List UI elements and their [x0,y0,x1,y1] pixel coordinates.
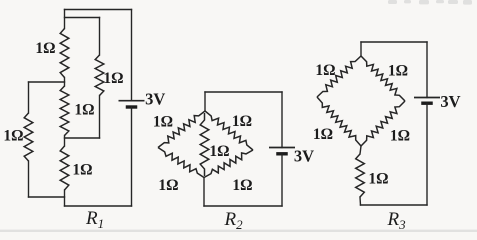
resistor R2a 1 ohm (top-left diagonal) [158,111,205,148]
svg-text:1Ω: 1Ω [390,128,410,145]
resistor R3e 1 ohm (bottom-right diagonal) [361,101,405,146]
resistor R1d 1 ohm (far-left vertical) [24,113,33,161]
svg-text:1Ω: 1Ω [232,177,252,194]
wire: left branch bottom to main line [29,196,65,198]
wire: node A segment of main line [64,78,66,87]
wire: stub from top wire to top node of bridge 3 [360,42,362,56]
battery B2 3V [269,148,295,154]
wire: left branch vertical lower [28,161,30,197]
wire: stub from bottom node of bridge 2 to bottom wire [203,178,205,207]
wire: node B segment of main line [64,136,66,147]
wire: node A to left branch [29,81,65,83]
svg-text:1Ω: 1Ω [158,177,178,194]
svg-text:1Ω: 1Ω [72,162,92,179]
svg-text:3V: 3V [440,92,460,111]
wire: stub below bottom node of bridge 3 [360,146,361,154]
resistor R3c 1 ohm (bottom vertical) [356,154,365,197]
svg-text:1Ω: 1Ω [388,63,408,80]
wire: battery B3 bottom lead [426,103,428,205]
resistor R2c 1 ohm (middle vertical of bridge 2) [200,113,209,176]
wire: right branch vertical lower [99,96,101,139]
svg-text:1Ω: 1Ω [103,70,123,87]
svg-text:1Ω: 1Ω [74,102,94,119]
faint scan artifact: cropped text bottoms at top-right edge [388,0,472,5]
battery B3 3V [414,98,440,104]
faint scan artifact: gray band along bottom edge [0,230,477,232]
svg-text:1Ω: 1Ω [153,114,173,131]
wire: top of circuit 2 [205,91,282,93]
wire: right branch vertical upper [99,18,101,56]
wire: top of circuit 1 [65,9,132,11]
svg-text:1Ω: 1Ω [368,171,388,188]
wire: bottom of circuit 3 [361,204,428,206]
svg-text:1Ω: 1Ω [209,143,229,160]
wire: bottom of circuit 2 [204,205,282,207]
wire: battery B3 top lead [426,42,428,98]
resistor R3b 1 ohm (top-right diagonal) [361,56,405,101]
resistor R3d 1 ohm (bottom-left diagonal) [317,97,361,146]
svg-text:1Ω: 1Ω [3,128,23,145]
wire: stub from top wire to top node of bridge 2 [204,92,206,111]
svg-text:1Ω: 1Ω [315,62,335,79]
wire: battery B1 bottom lead [131,107,133,206]
resistor R1e 1 ohm (bottom vertical) [60,146,69,190]
resistor R2b 1 ohm (top-right diagonal) [205,111,253,150]
wire: inner top wire to right branch [65,17,100,19]
svg-text:3V: 3V [145,90,165,109]
wire: left branch vertical upper [28,82,30,113]
wire: main line down to bottom wire [64,190,66,206]
wire: bottom of circuit 1 [65,205,132,207]
svg-text:1Ω: 1Ω [35,40,55,57]
resistor R2e 1 ohm (bottom-right diagonal) [204,150,253,178]
svg-text:1Ω: 1Ω [313,126,333,143]
wire: battery B1 top lead [131,10,133,101]
resistor R3a 1 ohm (top-left diagonal) [317,56,361,97]
wire: top of circuit 3 [361,41,427,43]
resistor R1c 1 ohm (middle vertical) [60,86,69,136]
svg-text:3V: 3V [294,147,314,166]
resistor R1b 1 ohm (right vertical) [95,55,104,96]
wire: bottom lead of R3c [359,197,362,205]
wire: battery B2 bottom lead [281,154,283,206]
wire: node B to right branch [65,137,100,139]
battery B1 3V [119,101,145,107]
wire: stub from top node to R1a [64,10,66,29]
resistor R1a 1 ohm (top-left vertical) [60,29,69,78]
wire: battery B2 top lead [281,92,283,148]
svg-text:1Ω: 1Ω [232,113,252,130]
resistor R2d 1 ohm (bottom-left diagonal) [158,148,204,178]
